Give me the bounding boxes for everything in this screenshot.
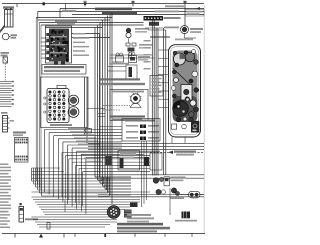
connector C6 square [124, 210, 132, 218]
wire top run 5 [45, 27, 102, 29]
label strip right [164, 17, 181, 19]
label terminal strip row 2 [44, 70, 80, 72]
round connector C3 upper [68, 95, 78, 105]
label bulkhead connector [13, 132, 26, 134]
lamp b1 [188, 112, 194, 118]
connector strip hatched [144, 16, 164, 21]
flasher F1 [126, 28, 131, 33]
dimmer switch floor [156, 189, 161, 194]
wire fuse out right 2 [72, 37, 111, 39]
label option arrow [168, 151, 173, 154]
frame tick 7 [191, 234, 193, 237]
wire blower feed [200, 194, 204, 196]
wire right bundle A [151, 21, 153, 176]
wire dashed into ignition box [103, 105, 130, 107]
wire block right vertical 1 [84, 77, 86, 136]
wire bottom run extra 2 [98, 196, 204, 198]
label connector C10 [1, 112, 8, 114]
label flasher [135, 28, 149, 30]
fuse panel bottom tabs [54, 62, 58, 65]
label under S2 [109, 63, 129, 65]
cluster diagonal divider [173, 68, 191, 85]
temp gauge [190, 100, 196, 106]
lamp m1 [172, 70, 176, 74]
headlight switch knob [171, 188, 176, 193]
indicator lamp t3 [192, 50, 196, 54]
indicator lamp t4 [194, 60, 199, 65]
switch box S5 [118, 151, 140, 171]
wire top border bus [2, 3, 204, 5]
label C10 note [10, 120, 15, 122]
cluster bottom window [172, 124, 177, 129]
lamp m8 [185, 97, 190, 102]
frame tick 5 [134, 234, 136, 237]
round bulkhead connector C5 [107, 206, 120, 219]
wire fuse out right 1 [72, 33, 100, 35]
dimmer switch S3 [129, 53, 132, 56]
fuse holder [130, 203, 138, 208]
wire right bundle B [163, 28, 165, 175]
lamp m2 [192, 71, 198, 77]
node tick F [132, 4, 134, 7]
lamp m3 [174, 78, 179, 83]
lamp m5 [171, 86, 176, 91]
label column mid [150, 36, 170, 38]
fuse panel row dividers [50, 35, 67, 38]
wire top run 4 [41, 24, 144, 26]
wire staircase harness lower [62, 152, 150, 154]
printed circuit box [150, 76, 163, 97]
wire flasher to hazard [128, 38, 130, 43]
node tick G [184, 4, 186, 8]
label under horn [175, 39, 193, 41]
lamp m7 [172, 94, 176, 98]
label bottom legend strip 1 [117, 223, 163, 226]
label hazard switch [139, 44, 152, 46]
node tick mid [84, 4, 86, 7]
oil gauge [194, 107, 199, 112]
wire column bundle verticals [94, 28, 96, 178]
resistor block R1 [129, 67, 133, 77]
label lamp rows left [126, 125, 138, 127]
connector C10 pins [8, 117, 10, 119]
tachometer gauge [173, 101, 189, 117]
wire lower nest corners [95, 176, 131, 178]
label ignition box header [112, 91, 144, 93]
node tick A [16, 4, 18, 8]
frame tick 3 [74, 234, 76, 237]
label legend column upper [0, 164, 9, 166]
label bottom legend strip 3 [117, 230, 157, 232]
instrument cluster inner edge [171, 47, 199, 135]
label alternator [11, 34, 18, 36]
label left of horn [164, 27, 179, 29]
page right edge shadow [203, 5, 205, 233]
blower motor M1 [189, 191, 201, 198]
wire stub to ignition box right [112, 61, 118, 63]
wire main bundle lower nest [31, 168, 33, 181]
wire column stub 1 [98, 113, 105, 115]
label fuse callouts right [73, 33, 85, 35]
instrument cluster housing [169, 45, 201, 137]
wire block to ignition [87, 108, 105, 110]
frame tick 4 [104, 234, 106, 237]
wire cluster drop 2 [171, 137, 173, 143]
terminal strip box [42, 65, 86, 75]
wire fuse feeds left [41, 37, 49, 39]
label lamp box header [125, 120, 155, 122]
cluster bottom lamp [182, 124, 187, 129]
wire suppressor drop [169, 188, 171, 215]
wire column elbows lower [95, 176, 131, 178]
ignition switch connector [153, 178, 159, 184]
wire lamp feed stub [100, 126, 122, 128]
node square x43 [43, 2, 45, 5]
wire headlamp feed [38, 11, 205, 13]
fuse panel left tabs [46, 33, 49, 36]
fusible link FL1 [3, 57, 8, 63]
resistor block R1 box [126, 65, 137, 79]
small connector stub [47, 223, 50, 230]
label battery [3, 6, 14, 8]
wire dashed drop [4, 64, 6, 81]
wire right bundle B top elbows [145, 27, 164, 29]
wiper motor block [149, 22, 159, 26]
wire ribbon to engine harness [0, 81, 13, 83]
wire battery positive cable [0, 25, 5, 31]
fuse panel FP1 box [46, 26, 72, 63]
indicator lamp t2 [184, 51, 188, 55]
cluster interior lower mass [173, 96, 198, 122]
label ignition switch connector [171, 177, 186, 179]
label right top [165, 5, 185, 7]
connector block C2 body [47, 89, 69, 123]
wire arrow top right [196, 7, 200, 10]
wire stub to resistor 1 [108, 66, 126, 68]
lamp b5 [189, 117, 194, 122]
dash harness outer box [41, 77, 89, 128]
bulkhead C1 lower pins [15, 156, 17, 158]
lamp connector pins 3 [140, 137, 146, 141]
horn H1 [181, 26, 189, 34]
label wire strip 2 [102, 12, 137, 15]
connector C2 pin grid [49, 91, 52, 94]
frame tick 6 [164, 234, 166, 237]
fuel sender unit [191, 121, 199, 133]
wire bus drop x65 [65, 4, 67, 12]
indicator lamp t5 [175, 63, 179, 67]
label headlight switch [170, 197, 184, 199]
wire drop x185 to horn [184, 7, 186, 27]
wire right bundle A top elbows [110, 54, 152, 56]
connector C2 side pins [44, 97, 46, 99]
wire horn tail [184, 34, 186, 39]
label mid tick [84, 1, 87, 3]
hazard switch S4 [126, 43, 130, 46]
relay K1 [106, 156, 112, 166]
frame tick 2 [63, 234, 65, 238]
label bottom legend strip 2 [117, 227, 170, 230]
wire stub x65 [64, 200, 66, 212]
bulkhead connector C1 [15, 138, 29, 163]
label legend column lower [0, 211, 8, 213]
frame arrow marker [39, 234, 43, 238]
fuse panel FP1 body [49, 29, 69, 62]
lamp b4 [183, 117, 187, 121]
ignition switch bracket [130, 104, 141, 108]
label radio suppressor [175, 220, 197, 222]
lamp connector pins 2 [140, 131, 146, 135]
wire fuse to column drop [99, 34, 101, 178]
radio suppressor [182, 212, 191, 219]
wire main harness bundle verticals [35, 18, 37, 182]
junction block dark [120, 158, 124, 168]
lamp b2 [186, 98, 189, 101]
label wire ids left of bundle [144, 40, 151, 42]
wire cluster drop [184, 137, 186, 143]
stoplamp switch S2 [116, 53, 119, 56]
lamp connector pins 1 [140, 125, 146, 129]
label connector callout rows [127, 214, 151, 216]
wire stub to resistor 2 [108, 70, 126, 72]
wire lamp box drops [141, 141, 143, 207]
ignition switch S1 [131, 94, 141, 104]
speedometer gauge [174, 53, 186, 65]
wire dashed option [150, 151, 204, 153]
battery B1 [5, 10, 14, 28]
wire dashed column segment [99, 88, 101, 105]
alternator G1 [2, 33, 9, 40]
wire block right vertical 2 [86, 77, 88, 143]
connector C12 strip [19, 207, 24, 223]
wire cluster out 2 [88, 145, 204, 147]
label staircase wires [68, 128, 90, 129]
connector ribbon end ticks [12, 81, 14, 82]
label horn [190, 28, 203, 30]
wire staircase harness upper [45, 129, 123, 131]
bulkhead C1 upper pins [15, 139, 17, 141]
round connector C4 lower [68, 107, 79, 118]
wire bottom frame line [2, 233, 205, 235]
wire nest ties [32, 167, 61, 169]
wire dash feed [72, 14, 204, 16]
wire bundle riser [37, 12, 39, 21]
label lamp rows right [148, 125, 159, 127]
frame tick 1 [14, 234, 16, 238]
wire drop x60 [59, 9, 61, 18]
wire horn feed [60, 8, 204, 10]
wire bottom bundle runs [32, 191, 151, 193]
connector C10 [3, 116, 8, 133]
wire cluster out 3 [88, 148, 204, 150]
cluster interior base [173, 51, 198, 122]
fuse panel FP1 fuses [57, 46, 59, 49]
label harness row 1 [100, 78, 140, 80]
label fuse panel top [55, 20, 77, 22]
label C12 [25, 218, 38, 220]
label harness row 2 [100, 83, 145, 85]
switch box S6 [150, 153, 162, 170]
wire top run 3 [39, 22, 143, 24]
wire top run 2 [38, 19, 110, 21]
label G [184, 1, 187, 3]
fuel gauge top [185, 52, 195, 62]
junction square [20, 203, 22, 205]
label fusible link [1, 52, 10, 54]
label switches [138, 56, 150, 58]
label above strip [155, 11, 179, 13]
node square x85 [84, 3, 86, 5]
lamp b3 [176, 117, 181, 122]
wire top run 1 [36, 17, 112, 19]
label connector block bottom [50, 124, 72, 126]
label callout box top right [185, 10, 204, 17]
ignition switch box [110, 90, 148, 121]
label terminal strip row 1 [44, 66, 84, 68]
label staircase lower wires [80, 151, 96, 152]
connector dark block [144, 157, 149, 166]
inline connector on wire [86, 129, 92, 134]
label printed circuit rows [152, 78, 162, 80]
label F [132, 1, 135, 3]
battery B1 terminals [6, 8, 8, 9]
label left of strip [62, 10, 76, 12]
wire cluster feed stubs [158, 49, 169, 51]
label ignition switch [110, 116, 145, 118]
wire cluster out 1 [88, 142, 204, 144]
wire bottom run extra 1 [98, 194, 204, 196]
wire column stub 2 [98, 116, 105, 118]
ammeter lamp [184, 89, 189, 94]
ammeter window [181, 85, 192, 101]
lamp connector box [122, 119, 160, 142]
lamp m4 [189, 79, 193, 83]
indicator lamp t1 [173, 51, 177, 55]
label wire strip 1 [95, 8, 132, 11]
wire blower to switch [180, 194, 189, 196]
connector block C2 tab [57, 85, 66, 88]
lamp m6 [194, 88, 199, 93]
